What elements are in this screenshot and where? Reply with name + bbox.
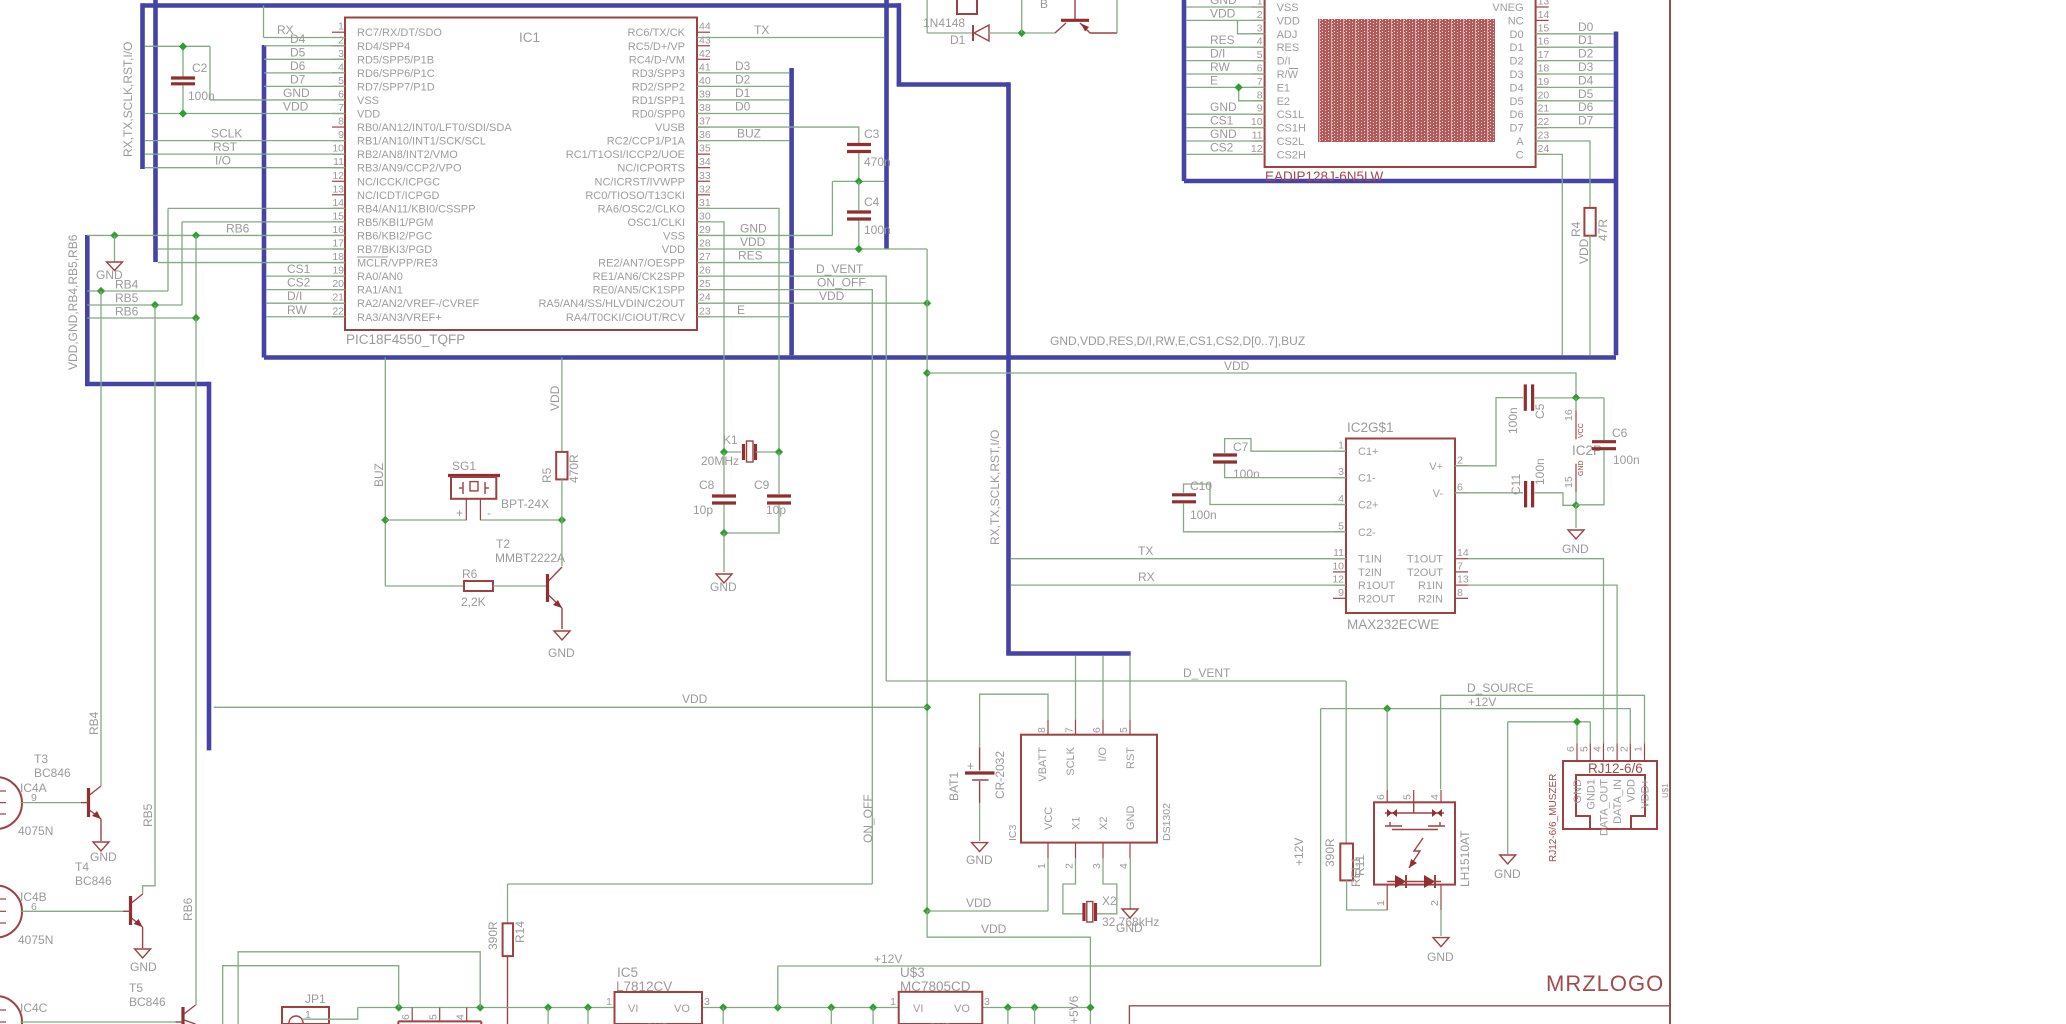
svg-text:PIC18F4550_TQFP: PIC18F4550_TQFP [346, 332, 465, 347]
svg-text:D6: D6 [1510, 109, 1524, 121]
svg-text:VDD: VDD [1210, 6, 1236, 20]
wire net VDD pin28 [697, 248, 927, 250]
wire LCD D2 to bus [1536, 60, 1614, 62]
wire LCD C down to bus [1536, 154, 1563, 355]
svg-text:C2-: C2- [1358, 527, 1376, 539]
svg-text:28: 28 [699, 238, 711, 250]
wire net VDD to DS1302 VCC [927, 910, 1048, 912]
svg-text:BPT-24X: BPT-24X [501, 497, 549, 511]
svg-text:15: 15 [1538, 22, 1550, 34]
transistor T3 BC846 [34, 752, 101, 841]
svg-text:VBATT: VBATT [1037, 747, 1049, 782]
junction [395, 1003, 403, 1011]
junction [179, 42, 187, 50]
wire C6 bottom [1576, 450, 1604, 505]
svg-text:R4: R4 [1569, 221, 1583, 237]
svg-text:23: 23 [1538, 130, 1550, 142]
svg-text:GND: GND [1562, 542, 1589, 556]
svg-text:RB6/KBI2/PGC: RB6/KBI2/PGC [357, 230, 432, 242]
capacitor C8 10p [693, 478, 736, 517]
svg-text:RA5/AN4/SS/HLVDIN/C2OUT: RA5/AN4/SS/HLVDIN/C2OUT [538, 298, 685, 310]
junction [923, 703, 931, 711]
svg-text:3: 3 [338, 48, 344, 60]
wire net ON_OFF pin25 riser [697, 290, 872, 884]
junction [1383, 705, 1391, 713]
capacitor C7 100n [1213, 439, 1346, 481]
wire net RB4 y=291 [87, 290, 168, 292]
svg-text:D1: D1 [735, 86, 751, 100]
svg-text:MAX232ECWE: MAX232ECWE [1347, 617, 1439, 632]
wire net RB4 pin14 [168, 207, 345, 209]
wire LCD D1 to bus [1536, 46, 1614, 48]
battery BAT1 CR-2032 [947, 747, 1007, 841]
svg-text:BAT1: BAT1 [947, 772, 961, 801]
svg-text:39: 39 [699, 88, 711, 100]
svg-text:2: 2 [1429, 900, 1441, 906]
svg-text:VI: VI [628, 1003, 638, 1015]
svg-text:RST: RST [1125, 747, 1137, 769]
capacitor C10 100n [1172, 479, 1346, 532]
svg-text:2: 2 [1257, 9, 1263, 21]
svg-text:7: 7 [1257, 76, 1263, 88]
bus vertical x=209 [207, 382, 212, 751]
svg-text:VDD: VDD [283, 100, 309, 114]
svg-text:GND: GND [966, 853, 993, 867]
svg-text:R1IN: R1IN [1418, 580, 1443, 592]
svg-text:4075N: 4075N [18, 933, 53, 947]
svg-text:26: 26 [699, 265, 711, 277]
svg-text:VSS: VSS [1277, 2, 1299, 14]
svg-text:2: 2 [1457, 454, 1463, 466]
junction [1018, 29, 1026, 37]
svg-text:TX: TX [754, 23, 769, 37]
LCD module U$2 EADIP128J-6N5LW [1251, 0, 1550, 184]
svg-text:A: A [1516, 136, 1524, 148]
bus vertical x=1184 left of LCD [1182, 0, 1187, 181]
svg-text:D/I: D/I [1277, 56, 1291, 68]
svg-text:ADJ: ADJ [1277, 29, 1298, 41]
svg-text:4: 4 [1338, 493, 1344, 505]
svg-text:RB5: RB5 [115, 291, 139, 305]
svg-text:4: 4 [1257, 36, 1263, 48]
svg-text:RA3/AN3/VREF+: RA3/AN3/VREF+ [357, 312, 442, 324]
svg-text:GND: GND [283, 86, 310, 100]
svg-text:11: 11 [1333, 547, 1344, 559]
svg-text:CS2H: CS2H [1277, 149, 1306, 161]
bus vertical x=791.6 [789, 68, 794, 355]
wire LCD E2 jog to E1 [1239, 87, 1265, 100]
svg-text:VDD: VDD [1224, 359, 1250, 373]
svg-text:100n: 100n [864, 223, 891, 237]
svg-text:+: + [456, 506, 463, 520]
wire net VDD to R5 [561, 358, 563, 452]
svg-text:NC/ICCK/ICPGC: NC/ICCK/ICPGC [357, 176, 440, 188]
power pins IC2P [1563, 398, 1602, 505]
wire net ON_OFF horizontal [508, 883, 873, 885]
svg-text:15: 15 [1563, 476, 1575, 488]
wire LCD A to R4 [1536, 141, 1590, 208]
resistor R11 390R [1323, 838, 1367, 880]
wire LCD pin2 VDD [1186, 19, 1264, 21]
junction [774, 1003, 782, 1011]
wire net RX to pin1 [264, 37, 346, 39]
svg-text:CS1H: CS1H [1277, 123, 1306, 135]
resistor R14 390R [486, 921, 527, 956]
svg-text:C9: C9 [754, 478, 770, 492]
svg-text:R14: R14 [513, 921, 527, 943]
svg-text:C7: C7 [1233, 440, 1249, 454]
svg-text:100n: 100n [1533, 458, 1547, 485]
svg-text:GND: GND [1116, 921, 1143, 935]
svg-text:MCLR/VPP/RE3: MCLR/VPP/RE3 [357, 258, 438, 270]
wire net I/O to pin11 [145, 167, 345, 169]
svg-text:DATA_IN: DATA_IN [1612, 779, 1624, 824]
transistor T5 BC846 [129, 981, 196, 1024]
ground [716, 574, 732, 583]
svg-text:T2OUT: T2OUT [1407, 567, 1443, 579]
svg-text:X2: X2 [1098, 817, 1110, 830]
wire net E pin23 [697, 316, 790, 318]
frame bottom line [1129, 1006, 1670, 1024]
svg-text:EADIP128J-6N5LW: EADIP128J-6N5LW [1265, 169, 1384, 184]
svg-text:GND: GND [1427, 950, 1454, 964]
svg-text:100n: 100n [1506, 407, 1520, 434]
wire net BUZ pin36 [697, 140, 789, 142]
svg-text:D4: D4 [1578, 73, 1594, 87]
capacitor C9 10p [754, 478, 791, 517]
wire net CS2 to pin20 [266, 289, 345, 291]
svg-text:15: 15 [332, 210, 344, 222]
svg-text:RB7/BKI3/PGD: RB7/BKI3/PGD [357, 244, 432, 256]
svg-text:DATA_OUT: DATA_OUT [1599, 779, 1611, 836]
svg-text:D7: D7 [1510, 123, 1524, 135]
wire net D/I to pin21 [266, 302, 345, 304]
svg-text:RES: RES [1277, 42, 1300, 54]
svg-text:35: 35 [699, 143, 711, 155]
svg-text:3: 3 [1091, 863, 1103, 869]
svg-text:RB3/AN9/CCP2/VPO: RB3/AN9/CCP2/VPO [357, 163, 462, 175]
svg-text:5: 5 [1257, 49, 1263, 61]
bus vertical x=1616 right of LCD [1614, 32, 1619, 356]
svg-text:5: 5 [338, 75, 344, 87]
svg-text:CS2L: CS2L [1277, 136, 1305, 148]
svg-text:VDD: VDD [1577, 238, 1591, 264]
svg-text:GND1: GND1 [1585, 779, 1597, 810]
wire C6 top riser [1603, 398, 1605, 440]
wire LCD D7 to bus [1536, 127, 1614, 129]
svg-text:1: 1 [890, 996, 896, 1008]
svg-text:24: 24 [1538, 143, 1550, 155]
svg-text:+12V: +12V [874, 952, 902, 966]
svg-text:20: 20 [1538, 89, 1550, 101]
wire net D0 pin38 [697, 113, 789, 115]
svg-text:CS1: CS1 [1210, 114, 1234, 128]
ground [1568, 530, 1584, 539]
wire LCD D6 to bus [1536, 113, 1614, 115]
svg-text:16: 16 [332, 224, 344, 236]
svg-text:25: 25 [699, 278, 711, 290]
svg-text:22: 22 [332, 305, 344, 317]
svg-text:8: 8 [1257, 89, 1263, 101]
svg-text:12: 12 [1251, 143, 1263, 155]
svg-text:D6: D6 [1578, 100, 1594, 114]
svg-text:10p: 10p [693, 503, 713, 517]
svg-text:VDD: VDD [357, 109, 380, 121]
wire net RB5 riser up [181, 222, 183, 305]
svg-text:RA6/OSC2/CLKO: RA6/OSC2/CLKO [598, 203, 686, 215]
svg-text:V-: V- [1433, 488, 1444, 500]
capacitor C3 470n [847, 127, 891, 181]
svg-text:IC5: IC5 [617, 965, 638, 980]
wire net D_SOURCE to REL1 pin4 [1440, 695, 1442, 789]
wire LCD pin6 RW [1186, 73, 1264, 75]
svg-text:SG1: SG1 [452, 459, 476, 473]
svg-text:+12V: +12V [1292, 838, 1306, 866]
junction [720, 448, 728, 456]
wire net C9 bottom [724, 505, 779, 534]
svg-text:IC4C: IC4C [20, 1001, 48, 1015]
svg-text:DS1302: DS1302 [1161, 803, 1173, 841]
svg-text:RD4/SPP4: RD4/SPP4 [357, 41, 410, 53]
wire net K1 right [756, 451, 780, 453]
svg-text:E2: E2 [1277, 96, 1290, 108]
svg-text:RC5/D+/VP: RC5/D+/VP [628, 41, 685, 53]
ground [1122, 909, 1138, 918]
svg-text:D/I: D/I [287, 289, 302, 303]
svg-text:6: 6 [1565, 746, 1577, 752]
svg-text:D0: D0 [1578, 20, 1594, 34]
svg-text:D5: D5 [290, 45, 306, 59]
svg-text:T5: T5 [129, 981, 143, 995]
svg-text:R2OUT: R2OUT [1358, 593, 1396, 605]
wire net R1IN down to RJ12 [1468, 585, 1617, 743]
svg-text:R/W: R/W [1277, 69, 1299, 81]
wire net D3 pin41 [697, 72, 789, 74]
wire net RX riser to bus [263, 6, 265, 38]
svg-text:U$3: U$3 [900, 965, 925, 980]
svg-text:3: 3 [704, 996, 710, 1008]
svg-text:GND: GND [90, 850, 117, 864]
capacitor C2 100n [171, 46, 215, 113]
svg-text:7: 7 [1064, 727, 1076, 733]
svg-text:BC846: BC846 [34, 766, 71, 780]
relay REL1 LH1510AT [1374, 790, 1455, 910]
svg-text:GND: GND [1578, 460, 1585, 476]
wire rail drop x=831 [830, 1008, 832, 1024]
svg-text:RD5/SPP5/P1B: RD5/SPP5/P1B [357, 54, 434, 66]
wire net riser x=1022 [1021, 0, 1023, 33]
svg-text:D5: D5 [1578, 87, 1594, 101]
bus data bus vertical x=264 [262, 45, 267, 358]
svg-text:I/O: I/O [1097, 747, 1109, 762]
svg-text:18: 18 [1538, 63, 1550, 75]
svg-text:D/I: D/I [1210, 47, 1225, 61]
svg-text:32: 32 [699, 183, 711, 195]
svg-text:VDD: VDD [662, 244, 685, 256]
svg-text:3: 3 [1257, 22, 1263, 34]
svg-text:6: 6 [1457, 481, 1463, 493]
svg-text:D1: D1 [1510, 42, 1524, 54]
svg-text:14: 14 [1538, 9, 1550, 21]
svg-text:D5: D5 [1510, 96, 1524, 108]
svg-text:T3: T3 [34, 752, 48, 766]
wire net y=520 SG1 bottom [385, 519, 466, 521]
IC IC3 DS1302 [1007, 720, 1173, 869]
wire net D1 to T1 base [989, 32, 1055, 34]
svg-text:ON_OFF: ON_OFF [817, 276, 866, 290]
wire net C8 bottom [723, 505, 725, 534]
wire net GND pin29 [697, 234, 832, 236]
svg-text:VDD: VDD [966, 896, 992, 910]
svg-text:17: 17 [332, 238, 344, 250]
svg-text:RA4/T0CKI/CIOUT/RCV: RA4/T0CKI/CIOUT/RCV [566, 312, 686, 324]
wire net TX to T1IN [1011, 558, 1346, 560]
wire net VCC drop [1047, 858, 1049, 911]
svg-text:+: + [967, 759, 974, 773]
svg-text:R6: R6 [462, 567, 478, 581]
svg-text:4: 4 [1592, 746, 1604, 752]
svg-text:JP1: JP1 [305, 992, 326, 1006]
svg-text:RB6: RB6 [226, 221, 250, 235]
wire net BUZ to R6 [385, 585, 464, 587]
junction [151, 301, 159, 309]
wire RB4 riser x=101 [100, 291, 102, 786]
junction [1004, 1003, 1012, 1011]
svg-text:11: 11 [333, 156, 344, 168]
svg-text:RC0/TIOSO/T13CKI: RC0/TIOSO/T13CKI [585, 190, 685, 202]
wire net RST riser [1129, 656, 1131, 720]
svg-text:RC1/T1OSI/ICCP2/UOE: RC1/T1OSI/ICCP2/UOE [566, 149, 685, 161]
wire net RJ12 pin5 riser [1589, 722, 1591, 744]
wire IC2P vertical [1575, 398, 1577, 411]
svg-text:21: 21 [1538, 103, 1550, 115]
wire LCD ADJ jog to VDD [1238, 20, 1265, 33]
svg-text:4075N: 4075N [18, 824, 53, 838]
resistor R5 470R [540, 452, 581, 483]
component box top cut (JP2) [957, 0, 977, 14]
regulator IC5 L7812CV [606, 965, 710, 1024]
svg-text:5: 5 [428, 1014, 440, 1020]
wire net ON_OFF to R14 [507, 884, 509, 923]
svg-text:C6: C6 [1612, 426, 1628, 440]
svg-text:C3: C3 [864, 127, 880, 141]
wire C1+ to C7 [1225, 439, 1346, 453]
svg-text:I/O: I/O [215, 154, 231, 168]
svg-text:RB6: RB6 [181, 897, 195, 921]
wire rail drop x=1035 [1034, 1008, 1036, 1024]
wire net D7 to pin5 [264, 85, 345, 87]
svg-text:GND: GND [130, 960, 157, 974]
wire net pin17 [158, 248, 345, 250]
svg-text:E: E [1210, 73, 1218, 87]
wire net RJ12 gnd horizontal [1508, 721, 1591, 723]
junction [544, 1003, 552, 1011]
wire net RW to pin22 [266, 316, 345, 318]
svg-text:BC846: BC846 [129, 995, 166, 1009]
wire net riser x=1117 [1116, 0, 1118, 33]
wire V- to C11 [1455, 492, 1523, 494]
svg-text:7: 7 [1457, 560, 1463, 572]
wire IC4B out to T4 base [21, 910, 124, 912]
svg-text:6: 6 [1091, 727, 1103, 733]
junction [827, 1003, 835, 1011]
wire C10 to C2- [1184, 503, 1347, 532]
svg-text:RB0/AN12/INT0/LFT0/SDI/SDA: RB0/AN12/INT0/LFT0/SDI/SDA [357, 122, 512, 134]
bus vertical x=155.5 [153, 0, 158, 262]
svg-text:C: C [1516, 149, 1524, 161]
svg-text:5: 5 [1578, 746, 1590, 752]
IC IC2 MAX232ECWE [1332, 420, 1469, 632]
svg-text:11: 11 [1252, 130, 1263, 142]
svg-text:C8: C8 [699, 478, 715, 492]
wire net SCLK riser [1075, 656, 1077, 720]
wire net OSC2 pin31 riser [697, 208, 779, 452]
svg-text:38: 38 [699, 102, 711, 114]
junction [110, 231, 118, 239]
svg-text:12: 12 [332, 170, 344, 182]
svg-text:RB4/AN11/KBI0/CSSPP: RB4/AN11/KBI0/CSSPP [357, 203, 475, 215]
wire LCD pin4 RES [1186, 46, 1264, 48]
svg-text:X1: X1 [1071, 817, 1083, 830]
svg-text:LH1510AT: LH1510AT [1458, 830, 1472, 887]
svg-text:ON_OFF: ON_OFF [861, 794, 875, 843]
svg-text:BC846: BC846 [75, 874, 112, 888]
junction [192, 314, 200, 322]
svg-text:23: 23 [699, 305, 711, 317]
ground [972, 843, 988, 852]
capacitor C5 100n [1506, 384, 1547, 434]
svg-text:20: 20 [332, 278, 344, 290]
svg-text:RC7/RX/DT/SDO: RC7/RX/DT/SDO [357, 27, 442, 39]
svg-text:R2IN: R2IN [1418, 593, 1443, 605]
svg-text:CS2: CS2 [1210, 140, 1234, 154]
svg-text:RD1/SPP1: RD1/SPP1 [632, 95, 685, 107]
svg-text:2,2K: 2,2K [461, 595, 486, 609]
wire net RB6 pin16 [158, 234, 345, 236]
wire net +12V to RJ12 pin2 [1321, 709, 1631, 744]
svg-text:T1OUT: T1OUT [1407, 554, 1443, 566]
svg-text:19: 19 [332, 265, 344, 277]
svg-text:8: 8 [338, 116, 344, 128]
svg-text:29: 29 [699, 224, 711, 236]
wire net GND riser [209, 46, 211, 100]
wire net feeder y=965 [223, 966, 399, 1024]
svg-text:-: - [487, 506, 491, 520]
svg-text:R5: R5 [540, 467, 554, 483]
junction [855, 177, 863, 185]
svg-text:1: 1 [1375, 900, 1387, 906]
wire net D_VENT horizontal [886, 680, 1346, 682]
wire net RJ12 pin6 riser [1576, 722, 1578, 744]
svg-text:NC/ICPORTS: NC/ICPORTS [617, 163, 685, 175]
svg-text:1: 1 [338, 21, 344, 33]
svg-text:10: 10 [332, 143, 344, 155]
svg-text:RW: RW [287, 303, 307, 317]
wire net to GND [723, 533, 725, 572]
svg-text:22: 22 [1538, 116, 1550, 128]
junction [923, 369, 931, 377]
wire net VUSB pin37 to C3 [697, 127, 859, 143]
svg-text:D1: D1 [950, 33, 966, 47]
svg-text:10: 10 [1332, 560, 1344, 572]
svg-text:U$1: U$1 [1661, 783, 1670, 798]
svg-text:470R: 470R [567, 454, 581, 483]
svg-text:VSS: VSS [357, 95, 379, 107]
svg-text:20MHz: 20MHz [701, 454, 739, 468]
wire rail drop x=873 [872, 1008, 874, 1024]
jumper JP1 [282, 992, 329, 1024]
svg-text:100n: 100n [1613, 453, 1640, 467]
